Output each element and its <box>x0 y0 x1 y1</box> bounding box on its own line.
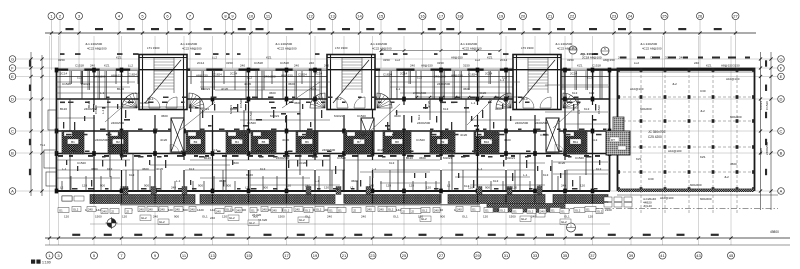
column <box>342 68 346 73</box>
dim tick text bar <box>310 151 316 153</box>
right dimension tick <box>759 129 762 132</box>
bottom dimension text 20 <box>643 234 651 236</box>
benchmark symbol <box>106 217 118 229</box>
window in top wall bay 15 <box>484 68 500 71</box>
boxed note <box>138 207 145 212</box>
svg-text:C1518: C1518 <box>75 64 84 68</box>
garage under-wall note <box>643 197 656 208</box>
vertical grid line for bottom axis 14 <box>440 36 442 245</box>
boxed note <box>456 207 463 212</box>
top dimension line <box>45 32 756 34</box>
interior dim tick <box>442 96 444 98</box>
B wall dim dash <box>268 155 275 157</box>
svg-text:4C20: 4C20 <box>244 82 252 86</box>
dim tick text bar <box>269 151 274 153</box>
svg-text:240: 240 <box>190 208 195 212</box>
boxed note <box>215 209 224 214</box>
boxed note <box>189 207 196 212</box>
top dimension tick 20 <box>521 31 524 34</box>
svg-text:120: 120 <box>512 186 517 190</box>
rotated dim text bar low <box>473 180 474 188</box>
bottom dimension line 1 <box>45 237 790 239</box>
left axis bubble B <box>9 150 16 157</box>
svg-text:3150: 3150 <box>463 64 470 68</box>
lower jamb <box>476 170 478 191</box>
svg-text:KZ1: KZ1 <box>706 64 712 68</box>
column <box>211 151 215 156</box>
mid band dim dash <box>593 119 597 121</box>
right dimension tick 2 <box>769 129 772 132</box>
room partition line <box>380 182 440 184</box>
column <box>285 151 289 156</box>
svg-text:3600: 3600 <box>463 87 470 91</box>
partition wall stub <box>225 153 227 191</box>
garage column <box>752 95 755 99</box>
svg-text:120: 120 <box>122 215 127 219</box>
svg-text:B5: B5 <box>262 140 266 144</box>
svg-text:E: E <box>11 74 14 79</box>
svg-text:KL3: KL3 <box>212 148 218 152</box>
door fan <box>122 93 137 108</box>
svg-text:KL3: KL3 <box>592 138 598 142</box>
room partition line <box>395 111 470 113</box>
svg-text:A8@150: A8@150 <box>451 74 463 78</box>
mid band dim dash <box>385 125 390 127</box>
partition wall stub <box>577 99 579 131</box>
window in top wall bay 11 <box>350 68 366 71</box>
interior wall on axis x=592.5 <box>592 71 594 191</box>
svg-text:KL3: KL3 <box>389 161 395 165</box>
bottom dimension tick 23 <box>729 236 732 239</box>
door fan <box>563 93 578 108</box>
building bottom wall on axis A <box>56 190 610 192</box>
column <box>120 189 124 194</box>
wall through balcony band <box>592 194 594 204</box>
dim tick text bar <box>66 134 72 136</box>
partition wall stub <box>299 153 301 175</box>
right dimension text <box>765 169 767 175</box>
top dimension tick 15 <box>379 31 382 34</box>
interior wall on axis x=121.5 <box>121 71 123 191</box>
lower jamb <box>100 176 102 191</box>
svg-text:GL1: GL1 <box>393 215 399 219</box>
svg-text:JL2: JL2 <box>724 175 729 179</box>
dim tick text bar <box>388 151 392 153</box>
svg-text:24: 24 <box>628 13 633 18</box>
rotated dim text bar low <box>102 160 103 167</box>
top dimension tick 10 <box>249 31 252 34</box>
svg-text:B6: B6 <box>305 140 309 144</box>
column <box>533 151 537 156</box>
interior wall on axis x=155 <box>154 71 156 191</box>
partition wall stub <box>585 153 587 175</box>
B wall dim dash <box>177 155 184 157</box>
svg-text:3600: 3600 <box>269 91 276 95</box>
wall through balcony band <box>477 194 479 204</box>
lower jamb <box>541 170 543 191</box>
column <box>563 151 567 156</box>
garage sill box <box>624 197 632 202</box>
top axis bubble 5 <box>139 13 146 20</box>
column <box>285 129 289 134</box>
interior wall on axis x=535 <box>534 71 536 191</box>
svg-text:3600: 3600 <box>394 114 401 118</box>
bottom dimension tick 14 <box>439 236 442 239</box>
dim tick text bar <box>312 156 318 158</box>
interior wall on axis x=565 <box>564 71 566 191</box>
garage top dim dash <box>637 57 645 59</box>
dim tick text bar <box>105 188 109 190</box>
svg-text:G1: G1 <box>485 209 489 213</box>
svg-text:B2: B2 <box>116 140 120 144</box>
column <box>153 68 157 73</box>
top axis bubble 9 <box>229 13 236 20</box>
top dimension text 18 <box>476 28 484 30</box>
svg-text:KZ1: KZ1 <box>266 56 272 60</box>
B wall dim dash <box>308 155 315 157</box>
svg-text:29: 29 <box>475 253 480 258</box>
column <box>55 151 59 156</box>
svg-text:2400x500: 2400x500 <box>765 141 769 155</box>
top dimension text 2 <box>66 28 74 30</box>
detail bubble a <box>569 46 577 54</box>
elevator shaft 3 <box>546 118 559 152</box>
dim tick text bar <box>138 156 144 158</box>
svg-text:M1021: M1021 <box>270 114 280 118</box>
B wall dim dash <box>584 155 589 157</box>
vertical grid line for top axis 19 <box>500 20 502 70</box>
lower jamb <box>369 176 371 191</box>
mid band dim dash <box>464 107 469 109</box>
interior wall on axis x=212.5 <box>212 71 214 191</box>
svg-text:GL2: GL2 <box>597 210 603 214</box>
column <box>313 97 317 102</box>
vertical grid line for bottom axis 16 <box>505 36 507 245</box>
top dimension tick 27 <box>734 31 737 34</box>
second tier tick <box>476 49 479 52</box>
column <box>285 189 289 194</box>
column <box>342 129 346 134</box>
interior wall on axis x=344 <box>343 71 345 191</box>
window in top wall bay 8 <box>260 68 276 71</box>
elevator shaft 1 <box>171 118 184 152</box>
column <box>342 151 346 156</box>
rotated dim text bar low <box>91 180 92 187</box>
garage column <box>752 187 755 191</box>
window in top wall bay 17 <box>542 68 558 71</box>
dim tick text bar <box>494 97 500 99</box>
bottom dimension tick 7 <box>211 236 214 239</box>
rotated dim text bar low <box>458 173 459 178</box>
room partition line <box>150 164 230 166</box>
left axis bubble F <box>9 65 16 72</box>
dim tick text bar <box>567 102 573 104</box>
interior wall on axis x=506 <box>505 71 507 191</box>
vertical grid line for bottom axis 18 <box>564 36 566 245</box>
bottom axis bubble 19 <box>312 252 319 259</box>
room partition line <box>56 81 135 83</box>
window jamb <box>263 71 265 90</box>
door opening <box>534 105 536 115</box>
window in top wall bay 5 <box>162 68 178 71</box>
left balcony box b <box>74 196 84 201</box>
svg-text:J2: J2 <box>402 210 405 214</box>
garage column <box>752 68 755 72</box>
lower jamb <box>302 176 304 191</box>
column <box>563 129 567 134</box>
door fan <box>377 93 392 108</box>
wall through patch band <box>403 131 405 155</box>
lower jamb <box>490 181 492 191</box>
dim tick text bar <box>472 151 478 153</box>
dim tick text bar <box>273 156 278 158</box>
svg-text:A: A <box>11 188 14 193</box>
garage column <box>640 119 643 123</box>
column <box>55 129 59 134</box>
wall through balcony band <box>121 194 123 204</box>
B wall dim dash <box>407 155 414 157</box>
window in top wall bay 10 <box>322 68 338 71</box>
svg-text:600x600: 600x600 <box>640 107 652 111</box>
svg-text:240x500: 240x500 <box>94 75 106 79</box>
column <box>371 151 375 156</box>
partition wall stub <box>415 71 417 99</box>
dim tick text bar <box>371 97 377 99</box>
dim tick text bar <box>268 97 274 99</box>
mid band dim dash <box>102 107 106 109</box>
svg-text:L-1: L-1 <box>135 91 140 95</box>
svg-text:C1520: C1520 <box>140 101 149 105</box>
garage top dim dash <box>683 57 688 59</box>
window jamb pair <box>105 71 107 99</box>
svg-text:25: 25 <box>402 253 407 258</box>
dim tick text bar <box>234 129 240 131</box>
rotated dim text bar <box>190 104 191 112</box>
vertical grid line for bottom axis 8 <box>248 36 250 245</box>
svg-text:4C20: 4C20 <box>221 87 229 91</box>
upper dim dash <box>315 53 320 55</box>
column <box>504 68 508 73</box>
svg-text:900: 900 <box>263 186 268 190</box>
svg-text:JL1 240x500: JL1 240x500 <box>180 42 198 46</box>
interior wall on axis x=441 <box>440 71 442 191</box>
svg-text:240: 240 <box>262 208 267 212</box>
left edge detail rect 2 <box>46 172 56 186</box>
mid band dim dash <box>440 102 446 104</box>
column <box>371 68 375 73</box>
bottom axis bubble 9 <box>152 252 159 259</box>
dim tick text bar <box>440 97 444 99</box>
mid band dim dash <box>195 107 199 109</box>
room partition line <box>390 81 520 83</box>
rotated dim text bar <box>595 104 596 111</box>
B wall dim dash <box>283 155 290 157</box>
svg-text:240: 240 <box>171 186 176 190</box>
wall through patch band <box>440 131 442 155</box>
svg-text:2400x500: 2400x500 <box>276 156 290 160</box>
rotated dim text bar <box>493 122 494 129</box>
right axis bubble E <box>778 73 785 80</box>
boxed note <box>421 208 430 213</box>
garage column <box>640 187 643 191</box>
dim tick text bar <box>557 129 561 131</box>
bottom dimension text 17 <box>546 234 554 236</box>
top dimension text 5 <box>151 28 159 30</box>
vertical grid line for top axis 11 <box>267 20 269 70</box>
top dimension text 24 <box>643 28 651 30</box>
interior dim string <box>415 96 520 98</box>
svg-text:26: 26 <box>698 13 703 18</box>
garage column <box>617 170 620 174</box>
svg-text:15: 15 <box>246 253 251 258</box>
top dimension tick 2 <box>58 31 61 34</box>
svg-text:2C14: 2C14 <box>197 61 205 65</box>
rotated dim text bar <box>202 110 203 118</box>
svg-text:KL3: KL3 <box>596 167 602 171</box>
interior wall on axis x=94 <box>93 71 95 191</box>
vertical grid line for bottom axis 7 <box>212 36 214 245</box>
dim tick text bar <box>244 134 248 136</box>
vertical grid line for top axis 25 <box>664 20 666 70</box>
partition wall stub <box>519 153 521 191</box>
vertical grid line for top axis 20 <box>522 20 524 70</box>
partition wall stub <box>429 99 431 120</box>
wall through patch band <box>505 131 507 155</box>
svg-text:3600: 3600 <box>161 114 168 118</box>
mid band dim dash <box>256 119 262 121</box>
garage column <box>712 145 715 149</box>
bottom dimension tick 8 <box>247 236 250 239</box>
window in top wall bay 9 <box>293 68 309 71</box>
rotated dim text bar <box>117 104 118 109</box>
column <box>563 189 567 194</box>
svg-text:L2: L2 <box>60 186 64 190</box>
lower jamb <box>557 176 559 191</box>
garage column <box>712 119 715 123</box>
garage column <box>712 187 715 191</box>
top dimension text 15 <box>398 28 406 30</box>
svg-text:27: 27 <box>733 13 738 18</box>
column <box>533 97 537 102</box>
svg-text:M1021: M1021 <box>229 104 233 114</box>
rotated dim text bar low <box>537 166 538 171</box>
top dimension text 16 <box>428 28 436 30</box>
boxed note <box>58 208 69 213</box>
door opening <box>212 105 214 115</box>
svg-text:39: 39 <box>629 253 634 258</box>
top dimension tick 4 <box>117 31 120 34</box>
svg-text:900: 900 <box>144 184 149 188</box>
B wall dim dash <box>69 155 73 157</box>
column <box>439 151 443 156</box>
svg-text:GL2: GL2 <box>561 220 567 224</box>
window in top wall bay 3 <box>100 68 116 71</box>
svg-text:JL1 240x500: JL1 240x500 <box>275 42 293 46</box>
garage sill box <box>604 203 612 208</box>
svg-text:LL2: LL2 <box>475 58 480 62</box>
svg-text:JL1 240x500: JL1 240x500 <box>555 42 573 46</box>
svg-text:900: 900 <box>253 215 258 219</box>
door fan <box>189 93 204 108</box>
wall through balcony band <box>154 194 156 204</box>
top axis bubble 24 <box>627 13 634 20</box>
svg-text:JC 350x700: JC 350x700 <box>648 130 665 134</box>
svg-text:G: G <box>11 56 14 61</box>
top axis bubble 7 <box>187 13 194 20</box>
column <box>402 97 406 102</box>
dim tick text bar <box>594 188 598 190</box>
dim tick text bar <box>106 134 112 136</box>
room partition line <box>240 119 330 121</box>
svg-text:KL3: KL3 <box>493 179 499 183</box>
second tier tick <box>499 49 502 52</box>
door opening <box>343 105 345 115</box>
vertical grid line for top axis 15 <box>380 20 382 70</box>
vertical grid line for top axis 27 <box>735 20 737 70</box>
room partition line <box>545 111 608 113</box>
dim tick text bar <box>138 129 143 131</box>
top axis bubble 26 <box>697 13 704 20</box>
bottom axis bubble 33 <box>532 252 539 259</box>
bottom axis bubble 31 <box>503 252 510 259</box>
svg-text:120: 120 <box>324 186 329 190</box>
rotated dim text bar low <box>288 160 289 168</box>
boxed note <box>72 207 81 212</box>
dim tick text bar <box>488 102 492 104</box>
upper dim dash <box>434 53 438 55</box>
leader line <box>282 82 320 108</box>
garage column <box>736 95 739 99</box>
left dimension tick 2 <box>40 129 43 132</box>
rotated dim text bar <box>310 122 311 127</box>
svg-text:1420: 1420 <box>197 208 204 212</box>
B wall dim dash <box>232 155 239 157</box>
top axis bubble 23 <box>611 13 618 20</box>
svg-text:C1824: C1824 <box>383 73 392 77</box>
svg-text:240: 240 <box>153 215 158 219</box>
svg-text:49800: 49800 <box>770 230 779 234</box>
svg-text:1500: 1500 <box>278 215 285 219</box>
svg-text:A: A <box>780 188 783 193</box>
window in top wall bay 12 <box>380 68 396 71</box>
top dimension tick 9 <box>231 31 234 34</box>
svg-text:13: 13 <box>330 13 335 18</box>
bottom dimension text 4 <box>134 234 142 236</box>
svg-text:900: 900 <box>440 215 445 219</box>
dim tick text bar <box>200 129 205 131</box>
svg-text:LL2: LL2 <box>417 76 422 80</box>
svg-text:L-1: L-1 <box>315 179 320 183</box>
bottom dimension tick 12 <box>371 236 374 239</box>
bottom dimension tick 9 <box>285 236 288 239</box>
top axis bubble 16 <box>419 13 426 20</box>
dim tick text bar <box>84 134 88 136</box>
column <box>591 189 595 194</box>
garage column <box>664 187 667 191</box>
svg-text:C1520: C1520 <box>597 105 601 114</box>
svg-text:21: 21 <box>342 253 347 258</box>
svg-text:B11: B11 <box>573 140 578 144</box>
svg-text:LL2: LL2 <box>634 61 639 65</box>
B wall dim dash <box>88 155 93 157</box>
svg-text:C1518: C1518 <box>592 64 601 68</box>
svg-text:900: 900 <box>485 186 490 190</box>
top axis bubble 3 <box>76 13 83 20</box>
svg-text:KL3: KL3 <box>129 173 135 177</box>
svg-text:C1824: C1824 <box>213 73 222 77</box>
garage column line v3 <box>688 70 690 215</box>
mid band dim dash <box>233 107 238 109</box>
